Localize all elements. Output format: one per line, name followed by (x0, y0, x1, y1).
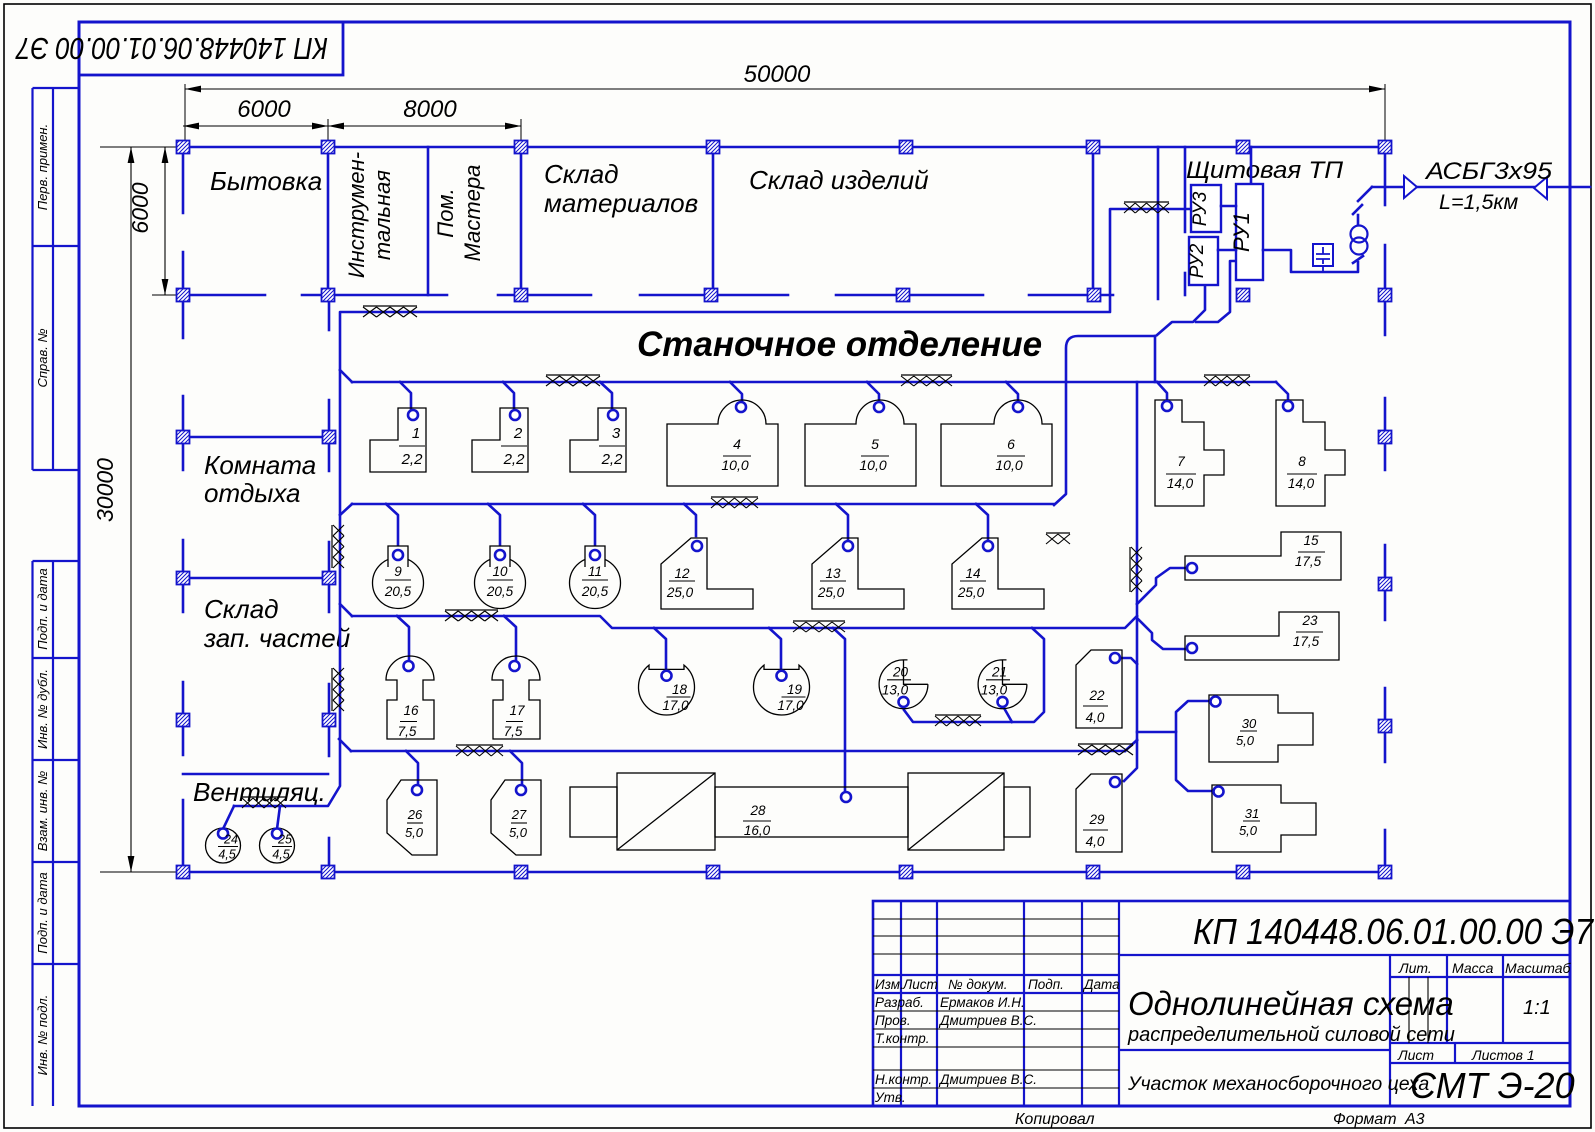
svg-text:20,5: 20,5 (384, 584, 412, 599)
svg-text:Дата: Дата (1082, 977, 1120, 992)
svg-text:27: 27 (511, 807, 527, 822)
branch to bus 2 (340, 504, 352, 515)
svg-text:20,5: 20,5 (581, 584, 609, 599)
svg-text:25,0: 25,0 (957, 585, 985, 600)
incoming cable line (1372, 186, 1590, 189)
drop to machine 19 (769, 628, 781, 671)
svg-text:Инв. № дубл.: Инв. № дубл. (35, 669, 50, 749)
svg-text:17,0: 17,0 (777, 698, 804, 713)
tee down to bus 1 (1154, 336, 1157, 382)
machine 29 (4,0 kW) (1076, 774, 1122, 852)
svg-text:25,0: 25,0 (666, 585, 694, 600)
drop to machine 16 (397, 616, 409, 660)
drop to machine 3 (600, 382, 612, 410)
svg-text:1: 1 (412, 425, 420, 442)
svg-text:Н.контр.: Н.контр. (875, 1072, 932, 1087)
svg-text:Дмитриев В.С.: Дмитриев В.С. (938, 1013, 1037, 1028)
svg-text:2: 2 (513, 425, 523, 442)
machine 19 (17,0 kW) (754, 665, 810, 715)
machine 16 (7,5 kW) (386, 656, 434, 739)
switchboard RU3 (1190, 185, 1221, 232)
machine 23 (17,5 kW) (1185, 612, 1339, 660)
svg-text:Склад: Склад (204, 594, 279, 624)
branch to bus 4 (1125, 740, 1137, 751)
machine 27 (5,0 kW) (491, 780, 541, 855)
svg-text:5,0: 5,0 (1239, 823, 1258, 838)
svg-text:Однолинейная схема: Однолинейная схема (1128, 985, 1454, 1022)
top rooms partition walls (328, 147, 1093, 295)
building wall right (dashed with openings) (1384, 147, 1387, 872)
svg-text:Дмитриев В.С.: Дмитриев В.С. (938, 1072, 1037, 1087)
interior wall x=329 (dashed) (328, 295, 331, 872)
svg-text:25,0: 25,0 (817, 585, 845, 600)
svg-text:26: 26 (407, 807, 423, 822)
switchroom partition (1184, 147, 1187, 295)
svg-text:20: 20 (892, 664, 909, 679)
svg-text:15: 15 (1303, 533, 1319, 548)
disconnect switch upper (1353, 205, 1362, 225)
svg-text:Лист: Лист (902, 977, 938, 992)
branch to machine 23 (1137, 618, 1186, 649)
svg-text:4,5: 4,5 (218, 848, 235, 862)
svg-text:12: 12 (674, 566, 690, 581)
machine 13 (25,0 kW) (812, 538, 904, 609)
drop to machine 2 (503, 382, 514, 410)
svg-text:6: 6 (1007, 436, 1015, 452)
svg-text:РУ2: РУ2 (1187, 243, 1208, 278)
bus row 3 (352, 616, 1137, 628)
svg-text:Разраб.: Разраб. (875, 995, 924, 1010)
drop to machine 13 (836, 504, 848, 541)
svg-text:6000: 6000 (127, 182, 153, 233)
list listov (1397, 1047, 1535, 1063)
feeder from RU1 to wall (1250, 147, 1253, 184)
svg-text:30: 30 (1242, 716, 1257, 731)
svg-text:тальная: тальная (370, 170, 395, 260)
svg-text:Бытовка: Бытовка (210, 166, 322, 196)
svg-text:Участок механосборочного цеха: Участок механосборочного цеха (1127, 1073, 1429, 1095)
cable break arrow left (1404, 176, 1417, 198)
branch to machine 15 (1137, 568, 1187, 604)
drop to machine 17 (504, 616, 516, 662)
title block signature rows (874, 995, 1037, 1105)
svg-text:L=1,5км: L=1,5км (1439, 190, 1519, 214)
drop to machine 14 (976, 504, 988, 541)
svg-text:Щитовая ТП: Щитовая ТП (1186, 157, 1344, 184)
machine 12 (25,0 kW) (661, 538, 753, 609)
svg-text:16,0: 16,0 (744, 823, 771, 838)
svg-text:18: 18 (672, 682, 688, 697)
wire from machine 22 (1120, 658, 1137, 664)
wire RU3 to RU1 (1221, 205, 1236, 208)
drop to machine 18 (654, 628, 666, 671)
feeder B from RU2 (1157, 285, 1205, 335)
svg-text:КП 140448.06.01.00.00 Э7: КП 140448.06.01.00.00 Э7 (1193, 911, 1595, 952)
machine 30 (5,0 kW) (1209, 695, 1313, 762)
svg-text:21: 21 (991, 664, 1007, 679)
svg-text:25: 25 (277, 833, 292, 847)
drop to machine 1 (400, 382, 411, 410)
ventilation room wall (183, 773, 328, 776)
svg-text:22: 22 (1088, 688, 1105, 703)
svg-text:РУ3: РУ3 (1190, 191, 1211, 226)
switchboard RU2 (1187, 237, 1218, 285)
svg-text:Подп. и дата: Подп. и дата (35, 872, 50, 953)
building wall top (183, 146, 1385, 149)
left margin labels (35, 124, 50, 1076)
svg-text:10: 10 (492, 564, 508, 579)
svg-text:2,2: 2,2 (401, 451, 424, 468)
svg-text:50000: 50000 (744, 61, 811, 88)
wire RU2 to RU1 (1218, 249, 1236, 252)
drop to machine 26 (406, 751, 418, 785)
svg-text:4,0: 4,0 (1086, 710, 1105, 725)
dimension 50000 top (185, 61, 1385, 147)
machine 21 (13,0 kW) (978, 660, 1027, 709)
svg-text:29: 29 (1088, 812, 1105, 827)
machine 14 (25,0 kW) (952, 538, 1044, 609)
machine 26 (5,0 kW) (387, 780, 437, 855)
machine 22 (4,0 kW) (1076, 650, 1122, 728)
machine 9 (20,5 kW) (373, 546, 424, 609)
svg-text:7,5: 7,5 (504, 724, 523, 739)
svg-text:17,5: 17,5 (1293, 634, 1320, 649)
svg-text:Инструмен-: Инструмен- (344, 152, 369, 278)
machine 28 (16,0 kW) (570, 773, 1030, 850)
machine 20 (13,0 kW) (879, 660, 928, 709)
svg-text:17: 17 (509, 703, 525, 718)
branch to bus 4 (339, 739, 351, 751)
bus row 2 (352, 503, 1054, 506)
feeder down to machine 28 (833, 628, 845, 792)
machine 1 (2,2 kW) (370, 408, 426, 472)
svg-text:Перв. примен.: Перв. примен. (35, 124, 50, 210)
svg-text:5,0: 5,0 (509, 825, 528, 840)
svg-text:Изм.: Изм. (875, 977, 904, 992)
svg-text:Станочное отделение: Станочное отделение (637, 325, 1042, 364)
machine 18 (17,0 kW) (639, 665, 695, 715)
svg-text:Формат: Формат (1333, 1111, 1397, 1128)
drop to machine 9 (386, 504, 398, 550)
feeder C from RU1 (1196, 261, 1236, 322)
feeder to machines 30 31 (1137, 701, 1210, 732)
transformer T1 (1351, 226, 1368, 255)
svg-text:4,0: 4,0 (1086, 834, 1105, 849)
machine 17 (7,5 kW) (492, 656, 540, 739)
svg-text:31: 31 (1245, 806, 1259, 821)
svg-text:5: 5 (871, 436, 879, 452)
svg-text:10,0: 10,0 (995, 457, 1022, 473)
title block header labels (875, 977, 1120, 992)
svg-text:2,2: 2,2 (503, 451, 526, 468)
column markers (177, 141, 1392, 879)
ventilation bus drops (223, 806, 280, 829)
machine 5 (10,0 kW) (805, 400, 916, 486)
svg-text:10,0: 10,0 (859, 457, 886, 473)
svg-text:28: 28 (749, 803, 766, 818)
svg-text:Инв. № подл.: Инв. № подл. (35, 995, 50, 1076)
svg-text:17,0: 17,0 (662, 698, 689, 713)
building wall bottom (183, 871, 1385, 874)
svg-text:№ докум.: № докум. (948, 977, 1007, 992)
svg-text:13,0: 13,0 (882, 682, 909, 697)
machine 4 (10,0 kW) (667, 400, 778, 486)
svg-text:14,0: 14,0 (1288, 476, 1315, 491)
dimension 8000 top (328, 96, 521, 148)
svg-text:1:1: 1:1 (1523, 997, 1551, 1019)
svg-text:Утв.: Утв. (874, 1090, 906, 1105)
svg-text:11: 11 (588, 564, 602, 579)
svg-text:6000: 6000 (237, 96, 291, 123)
svg-text:распределительной силовой сети: распределительной силовой сети (1127, 1024, 1455, 1046)
svg-text:СМТ Э-20: СМТ Э-20 (1410, 1065, 1575, 1106)
svg-text:Масштаб: Масштаб (1505, 960, 1572, 976)
svg-text:14: 14 (965, 566, 980, 581)
rest room wall (183, 436, 335, 439)
machine 10 (20,5 kW) (475, 546, 526, 609)
svg-text:16: 16 (403, 703, 419, 718)
svg-text:8: 8 (1298, 454, 1306, 469)
dimension 6000 left (127, 147, 177, 295)
dimension 6000 top (183, 96, 328, 148)
svg-text:4: 4 (733, 436, 741, 452)
drop to machine 29 (1124, 740, 1137, 781)
svg-text:Копировал: Копировал (1015, 1111, 1095, 1128)
drop to machine 31 (1176, 732, 1212, 791)
machine 15 (17,5 kW) (1185, 532, 1341, 580)
bus row 1 (352, 381, 1276, 384)
svg-text:3: 3 (612, 425, 621, 442)
svg-text:Склад: Склад (544, 159, 619, 189)
feeder to machines 20 21 (904, 628, 1044, 722)
machine 2 (2,2 kW) (472, 408, 528, 472)
footer labels (1015, 1111, 1425, 1128)
dimension 30000 left (92, 147, 177, 872)
svg-text:Пров.: Пров. (875, 1013, 911, 1028)
drop to machine 11 (583, 504, 595, 551)
branch to bus 3 (340, 604, 352, 616)
svg-text:Пом.: Пом. (433, 188, 458, 237)
svg-text:30000: 30000 (92, 458, 118, 522)
svg-text:РУ1: РУ1 (1229, 212, 1254, 252)
svg-text:7,5: 7,5 (398, 724, 417, 739)
svg-text:отдыха: отдыха (204, 478, 301, 508)
svg-text:Подп.: Подп. (1028, 977, 1064, 992)
left margin column boxes (33, 88, 80, 1106)
svg-text:Листов 1: Листов 1 (1471, 1047, 1535, 1063)
machine 25 (4,5 kW) (260, 828, 295, 863)
drop to machine 8 (1276, 382, 1288, 401)
svg-text:5,0: 5,0 (1236, 733, 1255, 748)
svg-text:5,0: 5,0 (405, 825, 424, 840)
room labels (193, 152, 1344, 807)
incoming cable drop (1358, 187, 1372, 201)
svg-text:зап. частей: зап. частей (203, 623, 350, 653)
svg-text:19: 19 (787, 682, 803, 697)
svg-text:Комната: Комната (204, 450, 316, 480)
machine 3 (2,2 kW) (570, 408, 626, 472)
feeder west to bus 2 (1054, 336, 1155, 505)
interior wall y=295 (dashed) (183, 294, 1113, 297)
svg-text:23: 23 (1301, 613, 1318, 628)
svg-text:9: 9 (394, 564, 402, 579)
svg-text:17,5: 17,5 (1295, 554, 1322, 569)
lit massa masshtab (1398, 960, 1572, 1019)
disconnect switch lower (1353, 256, 1363, 263)
cable hatch marks (242, 202, 1250, 808)
drawing name (1127, 985, 1455, 1095)
machine 8 (14,0 kW) (1276, 400, 1345, 506)
capacitor bank (1313, 244, 1333, 272)
spare parts store wall (183, 577, 329, 580)
drop to machine 7 (1157, 382, 1167, 401)
svg-text:24: 24 (223, 833, 238, 847)
drop to machine 21 (1004, 708, 1012, 722)
drop to machine 27 (510, 751, 522, 785)
machine 31 (5,0 kW) (1212, 785, 1316, 852)
switchroom west wall (1157, 147, 1160, 299)
svg-text:материалов: материалов (544, 188, 698, 218)
svg-text:А3: А3 (1404, 1111, 1425, 1128)
svg-text:Склад изделий: Склад изделий (749, 165, 929, 195)
wire RU1 to transformer (1263, 250, 1358, 272)
svg-text:Мастера: Мастера (460, 165, 485, 262)
machine 11 (20,5 kW) (570, 546, 621, 609)
drop to machine 12 (684, 504, 696, 536)
svg-text:АСБГ3х95: АСБГ3х95 (1424, 158, 1553, 185)
drop to machine 5 (867, 382, 879, 402)
svg-text:КП 140448.06.01.00.00 Э7: КП 140448.06.01.00.00 Э7 (15, 31, 328, 66)
switchboard RU1 (1229, 184, 1263, 280)
feeder A from RU3 west (234, 209, 1191, 806)
svg-text:Подп. и дата: Подп. и дата (35, 568, 50, 649)
svg-text:20,5: 20,5 (486, 584, 514, 599)
svg-text:Лист: Лист (1397, 1047, 1434, 1063)
machine 6 (10,0 kW) (941, 400, 1052, 486)
title block grid (873, 901, 1570, 1106)
svg-text:8000: 8000 (403, 96, 457, 123)
cable label (1424, 158, 1553, 214)
main trunk right (1136, 382, 1139, 740)
drop to machine 10 (488, 504, 500, 550)
svg-text:Лит.: Лит. (1398, 960, 1432, 976)
svg-text:Взам. инв. №: Взам. инв. № (35, 771, 50, 851)
svg-text:Ермаков И.Н.: Ермаков И.Н. (940, 995, 1025, 1010)
cable break arrow right (1534, 177, 1547, 199)
machine 24 (4,5 kW) (206, 828, 241, 863)
rotated document number box (15, 22, 343, 75)
drop to machine 4 (730, 382, 742, 402)
svg-text:10,0: 10,0 (721, 457, 748, 473)
svg-text:4,5: 4,5 (272, 848, 289, 862)
svg-text:Справ. №: Справ. № (35, 328, 50, 387)
svg-text:13,0: 13,0 (981, 682, 1008, 697)
drop to machine 6 (1006, 382, 1018, 402)
branch to bus 1 (340, 370, 352, 382)
svg-text:2,2: 2,2 (601, 451, 624, 468)
svg-text:14,0: 14,0 (1167, 476, 1194, 491)
svg-text:Масса: Масса (1452, 960, 1494, 976)
svg-text:7: 7 (1177, 454, 1185, 469)
bus row 4 (351, 750, 1125, 753)
machine 7 (14,0 kW) (1155, 400, 1224, 506)
building wall left (dashed with openings) (182, 147, 185, 872)
svg-text:13: 13 (825, 566, 841, 581)
svg-text:Т.контр.: Т.контр. (875, 1031, 929, 1046)
